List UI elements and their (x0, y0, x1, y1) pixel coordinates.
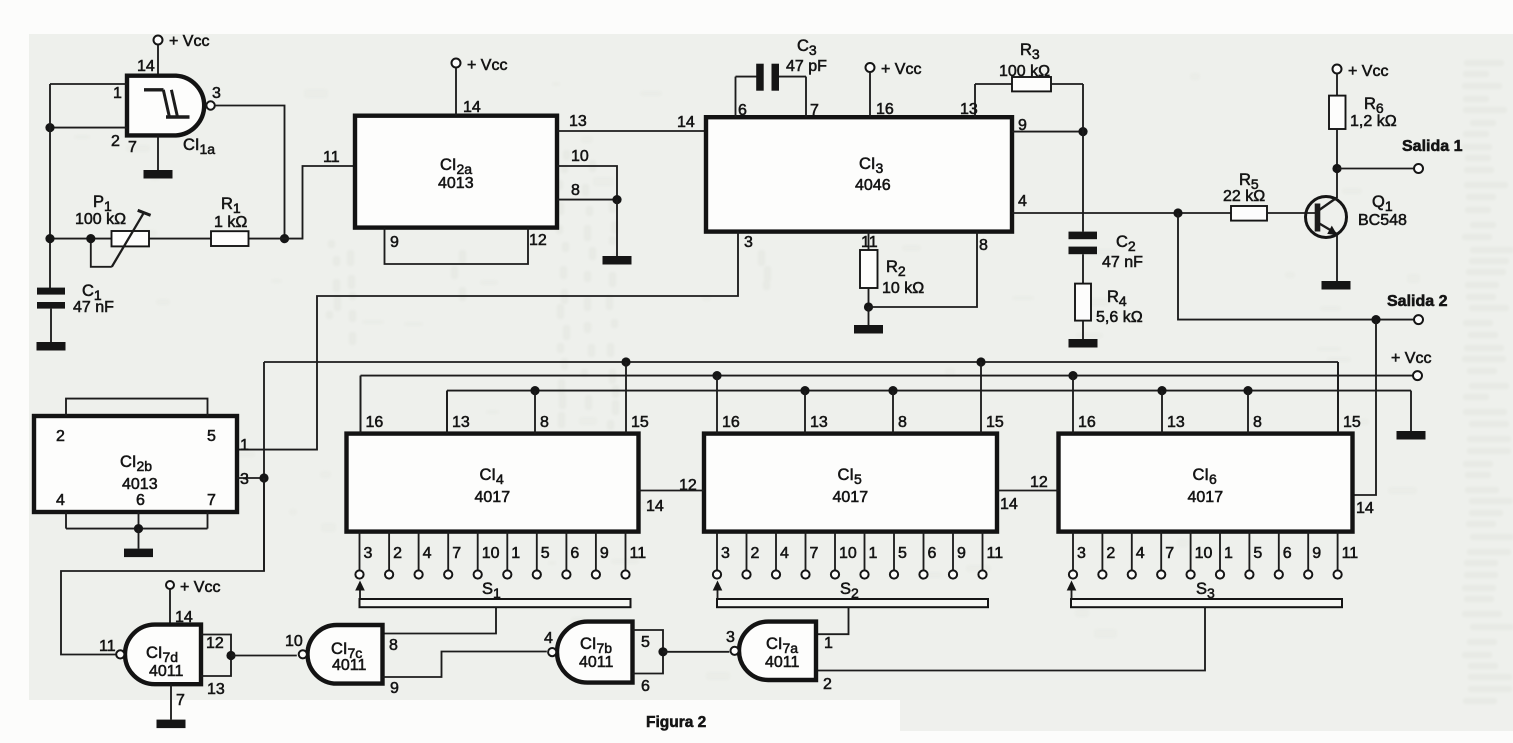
wire CI1a output to R1 node (215, 106, 289, 244)
Schmitt hysteresis symbol (144, 90, 190, 117)
svg-text:+ Vcc: + Vcc (169, 33, 209, 50)
reset rail (pin 15 net) (264, 357, 1338, 571)
wire CI5 pin 14 to CI6 pin 12 (997, 474, 1059, 513)
svg-text:1: 1 (1224, 545, 1233, 562)
svg-text:4: 4 (544, 630, 553, 647)
svg-text:4017: 4017 (1188, 489, 1224, 506)
IC CI2a 4013 (355, 116, 557, 228)
svg-text:14: 14 (1356, 500, 1374, 517)
svg-text:4011: 4011 (765, 654, 800, 671)
CI4 output pins and terminals (355, 532, 646, 579)
svg-text:4: 4 (780, 545, 789, 562)
svg-text:12: 12 (529, 232, 547, 249)
svg-text:11: 11 (630, 545, 647, 562)
CI1a output bubble pin 3 (206, 85, 221, 110)
wire Salida 2 to CI6 pin 14 (1353, 320, 1377, 517)
IC CI6 4017 (1059, 434, 1353, 532)
Q1 emitter ground (1322, 281, 1351, 290)
CI1a input pin 2 wire + junction (45, 123, 127, 150)
svg-text:8: 8 (571, 182, 580, 199)
svg-text:9: 9 (1018, 117, 1027, 134)
NAND gate CI7a 4011 (726, 622, 816, 680)
CI7d pins 12/13 loop + junction (201, 635, 236, 699)
svg-text:16: 16 (876, 101, 894, 118)
svg-text:2: 2 (56, 428, 65, 445)
C1 ground (37, 309, 66, 351)
svg-text:1: 1 (240, 437, 249, 454)
svg-text:4011: 4011 (149, 663, 184, 680)
resistor R2 10k on pin 11 (860, 232, 924, 312)
ground rail (pins 13/8 net) (447, 386, 1411, 434)
IC CI2b 4013 (34, 416, 237, 512)
svg-text:12: 12 (679, 477, 697, 494)
wire Vcc to CI1a pin 14 (137, 44, 158, 76)
IC CI5 4017 (704, 434, 997, 532)
svg-text:2: 2 (1106, 545, 1115, 562)
svg-text:14: 14 (1000, 496, 1018, 513)
svg-text:4011: 4011 (579, 654, 614, 671)
capacitor C1 47nF (37, 282, 114, 316)
svg-text:6: 6 (641, 678, 650, 695)
wire CI7a out to CI7b in (663, 651, 729, 653)
svg-text:3: 3 (212, 85, 221, 102)
svg-text:7: 7 (207, 492, 216, 509)
svg-text:11: 11 (861, 234, 878, 251)
svg-text:9: 9 (957, 545, 966, 562)
wire CI3 pin 3 to CI2b pin 1 (237, 232, 753, 450)
CI4 top pin wires 16/13/8/15 (361, 362, 649, 434)
svg-text:47 nF: 47 nF (73, 299, 114, 316)
wire node to CI2a pin 11 (285, 149, 356, 239)
svg-text:4046: 4046 (855, 177, 891, 194)
CI7d pin 7 ground (157, 684, 186, 728)
svg-text:8: 8 (898, 414, 907, 431)
resistor R5 22k (1223, 171, 1316, 221)
svg-text:9: 9 (390, 680, 399, 697)
svg-text:4: 4 (423, 545, 432, 562)
wire CI7b out to CI7c pin 9 (383, 652, 547, 698)
svg-text:4: 4 (56, 492, 65, 509)
CI5 output pins and terminals (713, 532, 1003, 579)
CI6 output pins and terminals (1069, 532, 1358, 579)
svg-text:8: 8 (979, 237, 988, 254)
svg-text:8: 8 (1253, 414, 1262, 431)
Vcc rail (pin 16 net) (361, 371, 1414, 434)
resistor R3 100k loop pin 13 (960, 41, 1083, 118)
svg-text:9: 9 (600, 545, 609, 562)
NAND gate CI7c 4011 (285, 625, 383, 684)
CI2b pins 2-5 top loop (66, 399, 208, 416)
svg-text:13: 13 (452, 414, 470, 431)
wire CI3 pin 9 (1012, 117, 1088, 136)
NAND gate CI7b 4011 (544, 622, 633, 683)
svg-text:9: 9 (1312, 545, 1321, 562)
svg-text:8: 8 (389, 637, 398, 654)
svg-text:5: 5 (641, 634, 650, 651)
svg-text:12: 12 (1030, 474, 1048, 491)
IC CI3 4046 (706, 117, 1012, 231)
svg-text:6: 6 (738, 102, 747, 119)
switch bar S1 (355, 580, 630, 607)
svg-text:13: 13 (810, 414, 828, 431)
Vcc terminal CI2a pin 14 (452, 57, 508, 116)
wire CI2b pin 3 to CI7d output (61, 478, 264, 655)
svg-text:15: 15 (1343, 414, 1361, 431)
svg-text:16: 16 (1078, 414, 1096, 431)
wire CI2a pin 13 to CI3 pin 14 (557, 113, 706, 131)
svg-text:100 kΩ: 100 kΩ (75, 211, 126, 228)
svg-text:13: 13 (1167, 414, 1185, 431)
CI7b pins 5/6 loop + junction (633, 630, 668, 695)
svg-text:2: 2 (751, 545, 760, 562)
svg-text:14: 14 (677, 114, 695, 131)
svg-text:1: 1 (113, 85, 122, 102)
capacitor C3 47pF loop pins 6-7 (736, 37, 828, 119)
CI2a pins 8/10 ground (603, 200, 632, 265)
svg-text:14: 14 (137, 58, 155, 75)
svg-text:2: 2 (823, 676, 832, 693)
svg-text:1: 1 (869, 545, 878, 562)
capacitor C2 47nF (1069, 84, 1144, 271)
oscillator RC net wire (45, 234, 284, 243)
svg-text:5,6 kΩ: 5,6 kΩ (1096, 309, 1143, 326)
wire CI4 pin 14 to CI5 pin 12 (639, 477, 705, 515)
svg-text:7: 7 (810, 102, 819, 119)
rail ground symbol (1397, 431, 1426, 440)
CI1a pin 7 ground (128, 135, 173, 178)
resistor R6 1,2k (1329, 73, 1397, 168)
wire CI2b pin 3 + junction (237, 471, 269, 488)
svg-text:10: 10 (285, 633, 303, 650)
svg-text:8: 8 (540, 414, 549, 431)
svg-text:4011: 4011 (332, 657, 367, 674)
caption Figura 2 (646, 714, 706, 731)
CI2b pins 4/6/7 bottom loop (66, 512, 208, 533)
svg-text:3: 3 (744, 234, 753, 251)
CI2b ground (124, 529, 153, 558)
svg-text:13: 13 (207, 681, 225, 698)
svg-text:3: 3 (721, 545, 730, 562)
CI5 top pin wires 16/13/8/15 (717, 362, 1004, 434)
svg-text:4017: 4017 (833, 489, 869, 506)
Vcc rail terminal (1391, 350, 1431, 380)
Vcc terminal R6 (1333, 63, 1389, 80)
Vcc terminal CI3 pin 16 (866, 61, 922, 118)
svg-text:7: 7 (176, 692, 185, 709)
svg-text:3: 3 (364, 545, 373, 562)
svg-text:22 kΩ: 22 kΩ (1223, 188, 1265, 205)
svg-text:10: 10 (571, 148, 589, 165)
R4 ground (1069, 339, 1098, 348)
svg-text:16: 16 (366, 414, 384, 431)
svg-text:100 kΩ: 100 kΩ (999, 63, 1050, 80)
svg-text:7: 7 (810, 545, 819, 562)
resistor R4 5,6k (1075, 254, 1143, 339)
svg-text:1: 1 (824, 635, 833, 652)
svg-text:4: 4 (1018, 193, 1027, 210)
resistor R1 1k (211, 195, 249, 246)
svg-text:10: 10 (839, 545, 857, 562)
wire S2 to CI7a pin 1 (816, 607, 849, 652)
CI2a pins 9-12 loop (385, 228, 547, 264)
svg-text:15: 15 (986, 414, 1004, 431)
svg-text:3: 3 (240, 471, 249, 488)
svg-text:Figura 2: Figura 2 (646, 714, 706, 731)
svg-text:2: 2 (111, 133, 120, 150)
NAND gate CI1a (4011 Schmitt) (127, 76, 215, 157)
svg-text:5: 5 (207, 428, 216, 445)
potentiometer P1 100k (75, 193, 151, 267)
left feedback rail (49, 84, 51, 288)
wire CI7c out to CI7d in (231, 655, 297, 657)
svg-text:10 kΩ: 10 kΩ (882, 280, 924, 297)
svg-text:6: 6 (928, 545, 937, 562)
svg-text:13: 13 (569, 113, 587, 130)
svg-text:5: 5 (541, 545, 550, 562)
svg-text:47 pF: 47 pF (786, 58, 827, 75)
svg-text:15: 15 (631, 414, 649, 431)
CI2b pin 1 label (240, 437, 249, 454)
svg-text:7: 7 (128, 139, 137, 156)
svg-text:+ Vcc: + Vcc (180, 579, 220, 596)
svg-text:4: 4 (1136, 545, 1145, 562)
svg-text:16: 16 (722, 414, 740, 431)
svg-text:6: 6 (136, 492, 145, 509)
svg-text:Salida 1: Salida 1 (1402, 138, 1463, 155)
wire S1 to CI7c pin 8 (383, 607, 497, 654)
svg-text:6: 6 (570, 545, 579, 562)
svg-text:6: 6 (1283, 545, 1292, 562)
svg-text:+ Vcc: + Vcc (1348, 63, 1388, 80)
Salida 2 output net (1178, 213, 1448, 324)
svg-text:4017: 4017 (475, 489, 511, 506)
svg-text:11: 11 (99, 638, 116, 655)
svg-text:+ Vcc: + Vcc (467, 57, 507, 74)
NAND gate CI7d 4011 (99, 625, 201, 685)
svg-text:11: 11 (323, 149, 340, 166)
svg-text:5: 5 (1253, 545, 1262, 562)
svg-text:+ Vcc: + Vcc (1391, 350, 1431, 367)
svg-text:4013: 4013 (122, 476, 158, 493)
svg-text:5: 5 (898, 545, 907, 562)
IC CI4 4017 (347, 434, 639, 532)
svg-text:13: 13 (960, 101, 978, 118)
wire S3 to CI7a pin 2 (816, 607, 1205, 693)
svg-text:BC548: BC548 (1358, 212, 1407, 229)
Vcc terminal (CI1a pin 14) (154, 33, 210, 50)
svg-text:1 kΩ: 1 kΩ (214, 214, 247, 231)
svg-text:Salida 2: Salida 2 (1387, 293, 1448, 310)
svg-text:12: 12 (206, 635, 224, 652)
wire CI2a pin 8 + junction (557, 182, 622, 204)
switch bar S3 (1067, 580, 1342, 607)
svg-text:11: 11 (987, 545, 1004, 562)
svg-text:3: 3 (1077, 545, 1086, 562)
svg-text:3: 3 (726, 629, 735, 646)
svg-text:14: 14 (463, 99, 481, 116)
svg-text:10: 10 (1195, 545, 1213, 562)
CI1a input pin 1 wire (50, 84, 127, 102)
svg-text:2: 2 (393, 545, 402, 562)
Salida 1 output (1332, 138, 1462, 173)
svg-text:11: 11 (1342, 545, 1359, 562)
svg-text:4013: 4013 (438, 175, 474, 192)
svg-text:9: 9 (390, 234, 399, 251)
wire CI2a pin 10 (557, 148, 617, 200)
CI6 top pin wires 16/13/8/15 (1073, 362, 1361, 434)
switch bar S2 (713, 580, 988, 607)
svg-text:10: 10 (482, 545, 500, 562)
svg-text:47 nF: 47 nF (1102, 254, 1143, 271)
svg-text:14: 14 (646, 498, 664, 515)
R2 ground (854, 307, 883, 334)
svg-text:1: 1 (511, 545, 520, 562)
svg-text:1,2 kΩ: 1,2 kΩ (1350, 113, 1397, 130)
svg-text:+ Vcc: + Vcc (881, 61, 921, 78)
wire CI3 pin 4 (VCO out) (1012, 193, 1231, 218)
svg-text:7: 7 (452, 545, 461, 562)
svg-text:7: 7 (1165, 545, 1174, 562)
Vcc terminal CI7d pin 14 (166, 579, 220, 626)
wire CI3 pin 8 (869, 232, 989, 307)
transistor Q1 BC548 (1306, 169, 1408, 282)
